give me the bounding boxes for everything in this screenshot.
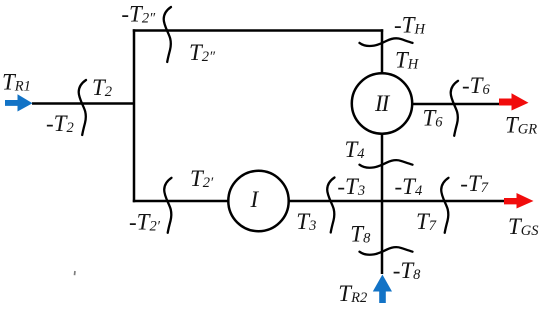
break mark on bottom-right wire (T7): [441, 178, 448, 233]
wire: left vertical bus: [133, 29, 136, 202]
break mark on circle II output (T6): [451, 81, 458, 136]
svg-text:-T7: -T7: [460, 171, 488, 196]
svg-text:T2: T2: [92, 75, 112, 100]
break mark on upper right vertical (TH): [360, 38, 413, 46]
svg-text:TH: TH: [395, 47, 420, 72]
break mark on vertical below junction (T8): [360, 247, 413, 255]
svg-text:TR2: TR2: [338, 281, 367, 306]
svg-text:I: I: [250, 187, 260, 212]
component circle II: [352, 73, 412, 133]
svg-text:T3: T3: [296, 209, 316, 234]
stray tick mark: [74, 271, 76, 275]
svg-text:-T6: -T6: [462, 73, 490, 98]
wire: right vertical through circle II down to TR2 arrow: [381, 29, 384, 274]
svg-text:TGS: TGS: [508, 214, 539, 239]
svg-text:-T2′: -T2′: [129, 209, 161, 234]
break mark on vertical between II and junction (T4): [360, 160, 413, 168]
wire: bottom horizontal through circle I to TGS arrow: [133, 200, 507, 203]
break mark on bottom-left wire (T2'): [164, 178, 171, 233]
break mark on wire circle I to junction (T3): [327, 178, 334, 233]
wire: circle II output to TGR arrow: [408, 103, 502, 106]
svg-text:T6: T6: [423, 105, 444, 130]
arrow: blue input TR2 (up): [373, 275, 392, 304]
svg-text:T2″: T2″: [189, 40, 216, 65]
svg-text:-T8: -T8: [393, 258, 421, 283]
break mark on input wire (T2): [79, 80, 86, 135]
svg-text:-T2″: -T2″: [121, 1, 156, 26]
svg-text:T4: T4: [345, 137, 365, 162]
svg-text:II: II: [374, 91, 391, 116]
svg-text:TGR: TGR: [505, 112, 537, 137]
wire: top horizontal: [133, 29, 383, 32]
break mark on top wire (T2''): [164, 7, 171, 62]
arrow: red output TGR: [499, 93, 529, 110]
arrow: red output TGS: [504, 193, 534, 209]
svg-text:T2′: T2′: [190, 166, 214, 191]
svg-text:TR1: TR1: [2, 70, 31, 95]
svg-text:-T3: -T3: [337, 174, 365, 199]
svg-text:T7: T7: [416, 209, 437, 234]
arrow: blue input TR1: [5, 94, 33, 111]
wire: input from TR1 arrow to left bus: [32, 102, 134, 105]
svg-text:-T2: -T2: [46, 111, 74, 136]
component circle I: [228, 171, 288, 231]
svg-text:-T4: -T4: [395, 174, 423, 199]
svg-text:T8: T8: [350, 221, 371, 246]
svg-text:-TH: -TH: [394, 12, 426, 37]
